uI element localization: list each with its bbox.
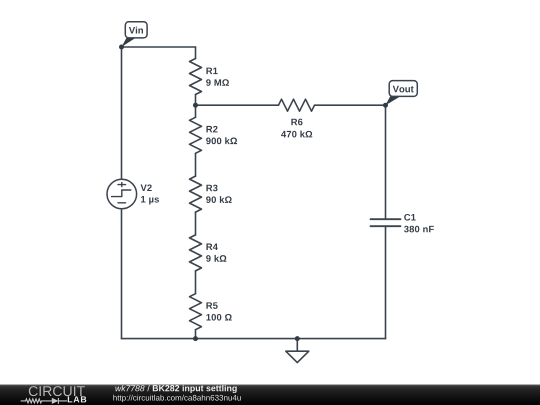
voltage source V2 circle	[107, 179, 137, 209]
label R4 value	[206, 255, 226, 262]
wire right rail lower (C1 to bottom)	[385, 226, 387, 338]
label V2 name	[141, 184, 152, 191]
resistor R1	[190, 59, 202, 95]
Vout flag box	[389, 81, 417, 97]
label R5 value	[206, 314, 231, 321]
node dot R1/R2/R6 junction	[193, 103, 198, 108]
V2 step waveform	[112, 190, 131, 197]
wire chain lead into R1	[195, 47, 197, 59]
logo LAB text	[68, 396, 87, 402]
label R4 name	[206, 244, 217, 250]
wire R3 to R4	[195, 212, 197, 235]
ground stem	[296, 339, 298, 352]
label R3 name	[206, 185, 217, 192]
label R6 name	[291, 119, 302, 126]
label R3 value	[206, 196, 232, 203]
wire R1 to R2	[195, 95, 197, 118]
label V2 value	[141, 196, 159, 204]
wire R2 to R3	[195, 153, 197, 176]
wire right rail upper (Vout to C1)	[385, 105, 387, 219]
footer url text: circuitlab address	[113, 395, 240, 402]
V2 minus sign	[118, 202, 126, 204]
footer bar top edge	[0, 384, 540, 385]
node dot Vout	[383, 103, 388, 108]
capacitor C1 top plate	[371, 218, 401, 220]
logo CIRCUIT text	[29, 386, 85, 396]
label C1 value	[404, 226, 434, 233]
capacitor C1 bottom plate	[371, 225, 401, 227]
wire top: Vin node to resistor chain	[122, 46, 196, 48]
wire left rail upper	[121, 47, 123, 179]
Vin flag pointer	[122, 38, 137, 47]
logo diode triangle glyph	[52, 398, 59, 404]
resistor R2	[190, 117, 202, 153]
label R1 value	[206, 79, 229, 86]
wire left rail lower	[121, 209, 123, 339]
wire R5 to bottom rail	[195, 330, 197, 339]
ground triangle	[286, 351, 309, 362]
resistor R4	[190, 235, 202, 271]
label R5 name	[206, 302, 217, 309]
wire bottom rail	[122, 338, 386, 340]
resistor R5	[190, 294, 202, 330]
node dot R5 bottom junction	[193, 336, 198, 341]
Vin flag label	[129, 27, 143, 34]
logo diode bar and wire glyph	[58, 398, 67, 404]
wire node to R6	[196, 104, 279, 106]
footer bar	[0, 385, 540, 405]
Vout flag pointer	[386, 96, 401, 105]
node dot Vin	[119, 45, 124, 50]
resistor R3	[190, 176, 202, 212]
wire R4 to R5	[195, 271, 197, 294]
label R2 value	[206, 137, 237, 144]
label C1 name	[404, 214, 415, 221]
wire R6 to Vout node	[315, 104, 386, 106]
Vin flag box	[125, 22, 147, 38]
resistor R6	[279, 99, 315, 111]
logo resistor zigzag glyph	[21, 399, 52, 403]
footer title: wk7788 / BK282 input settling	[115, 385, 236, 393]
label R1 name	[206, 68, 217, 74]
node dot ground junction	[295, 336, 300, 341]
Vout flag label	[393, 86, 414, 93]
V2 plus sign	[118, 183, 126, 187]
label R6 value	[281, 131, 312, 138]
label R2 name	[206, 126, 217, 133]
